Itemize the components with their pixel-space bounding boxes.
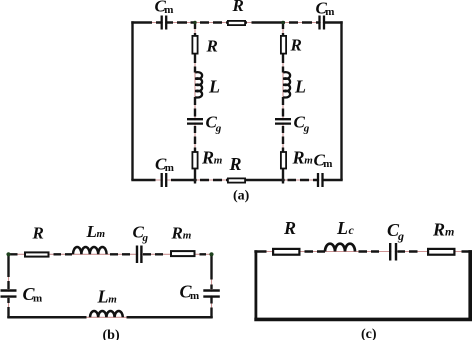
wire: (a) right side vertical [340, 21, 342, 180]
svg-text:m: m [325, 6, 334, 18]
wire: (c) top horizontal black dashes [254, 250, 471, 253]
svg-text:m: m [304, 155, 313, 167]
resistor R (c) [273, 218, 299, 255]
svg-text:m: m [183, 230, 192, 242]
node: (b) top-left corner [6, 252, 10, 256]
svg-text:R: R [171, 224, 183, 243]
capacitor Cm (a) bottom-left [155, 155, 174, 188]
svg-text:m: m [97, 228, 106, 240]
svg-text:c: c [349, 223, 355, 237]
wire: (a) bottom horizontal black dashes [131, 179, 342, 181]
svg-text:L: L [336, 218, 348, 238]
wire: (a) top horizontal (red underlay) [132, 22, 343, 24]
svg-text:m: m [33, 293, 42, 305]
svg-text:R: R [229, 154, 242, 174]
inductor L (a) right branch [283, 72, 306, 97]
wire: (b) top horizontal black dashes [9, 253, 207, 255]
svg-text:(a): (a) [233, 189, 250, 204]
svg-text:R: R [432, 220, 445, 240]
capacitor Cm (b) right [180, 282, 220, 303]
svg-text:L: L [208, 77, 220, 97]
svg-text:g: g [397, 229, 404, 243]
svg-text:m: m [190, 290, 199, 302]
wire: (a) right branch vertical dashed [282, 23, 284, 184]
resistor R (b) [25, 224, 49, 257]
wire: (c) top horizontal (red underlay) [256, 251, 471, 253]
resistor R (a) right branch [281, 36, 302, 55]
svg-text:m: m [323, 158, 332, 170]
svg-text:(c): (c) [361, 327, 377, 340]
svg-text:R: R [290, 36, 302, 55]
capacitor Cm (a) bottom-right [314, 151, 333, 188]
wire: (b) bottom horizontal [7, 316, 212, 318]
capacitor Cg (a) right branch [275, 113, 310, 135]
svg-text:R: R [32, 224, 44, 243]
svg-text:g: g [303, 123, 310, 135]
wire: (a) bottom horizontal (red underlay) [132, 179, 343, 181]
capacitor Cg (b) [133, 223, 149, 264]
node: (a) bottom-left branch junction [193, 178, 197, 182]
capacitor Cm (a) top-right [316, 0, 335, 30]
resistor Rm (b) [171, 224, 195, 257]
svg-text:L: L [97, 287, 109, 307]
wire: (b) top horizontal (red underlay) [9, 253, 212, 255]
node: (b) top-right corner [209, 252, 213, 256]
wire: (a) top horizontal black dashes [131, 21, 342, 23]
inductor Lm (b) top [73, 222, 107, 254]
capacitor Cg (c) [387, 220, 404, 261]
inductor Lc (c) [325, 218, 355, 252]
svg-text:L: L [86, 222, 97, 241]
svg-text:R: R [283, 218, 296, 238]
svg-text:L: L [294, 77, 306, 97]
svg-text:R: R [206, 37, 218, 56]
resistor Rm (c) [428, 220, 454, 255]
svg-text:m: m [165, 162, 174, 174]
svg-text:m: m [214, 155, 223, 167]
svg-text:m: m [445, 225, 454, 239]
capacitor Cm (b) left [1, 284, 43, 305]
node: (a) top-left branch junction [193, 21, 196, 24]
resistor Rm (a) left branch [192, 148, 222, 169]
inductor Lm (b) bottom [90, 287, 123, 318]
wire: (c) right side vertical [468, 250, 472, 320]
svg-text:g: g [215, 123, 222, 135]
resistor R (a) left branch [192, 36, 217, 56]
wire: (b) right side vertical [211, 254, 213, 318]
inductor L (a) left branch [195, 72, 220, 97]
wire: (a) left branch vertical dashed [194, 23, 196, 184]
svg-text:R: R [201, 148, 214, 168]
svg-text:g: g [142, 232, 149, 244]
resistor R (a) top [228, 0, 245, 25]
capacitor Cm (a) top-left [155, 0, 174, 30]
svg-text:R: R [292, 148, 305, 168]
svg-text:m: m [108, 294, 117, 306]
wire: (c) left side vertical [254, 250, 257, 319]
wire: (b) left side vertical [8, 254, 10, 318]
resistor Rm (a) right branch [281, 148, 313, 169]
node: (a) bottom-right branch junction [281, 178, 285, 182]
wire: (c) bottom horizontal [254, 318, 472, 322]
node: (a) top-right branch junction [281, 21, 284, 24]
wire: (a) left side vertical [131, 21, 133, 180]
svg-text:m: m [164, 4, 173, 16]
resistor R (a) bottom [228, 154, 245, 183]
svg-text:(b): (b) [103, 328, 120, 340]
capacitor Cg (a) left branch [187, 113, 222, 135]
svg-text:R: R [232, 0, 244, 15]
